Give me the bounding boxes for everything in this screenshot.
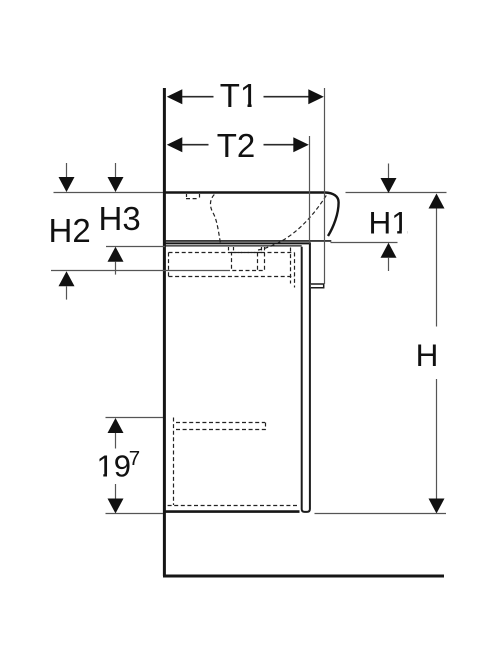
svg-text:H1: H1 [369, 205, 409, 241]
dimension T2 [167, 127, 309, 164]
dimension H1 [331, 164, 409, 272]
extension line T1 [324, 88, 326, 284]
floor line [163, 575, 444, 578]
washbasin top edge and front curve [164, 193, 339, 237]
washbasin bowl hidden contour left [210, 195, 220, 243]
dimension H [315, 194, 447, 514]
extension line T2 [309, 136, 311, 244]
drain trap hidden box [232, 253, 265, 271]
dimension H3 [99, 163, 166, 275]
svg-text:H: H [416, 337, 439, 373]
door hidden outline top [169, 248, 295, 288]
svg-text:T2: T2 [217, 127, 256, 164]
svg-text:7: 7 [129, 447, 140, 470]
cabinet top edge [164, 242, 311, 244]
dimension H2 [49, 163, 231, 300]
washbasin overflow hidden lines [186, 194, 200, 199]
svg-text:H2: H2 [49, 212, 91, 249]
svg-text:T1: T1 [220, 77, 259, 114]
cabinet front panel [302, 244, 310, 512]
door inner hidden edge [168, 418, 298, 506]
washbasin bottom edge [164, 240, 331, 242]
tick line top right [346, 192, 447, 194]
wall [163, 88, 166, 576]
dimension T1 [167, 77, 324, 114]
svg-text:H3: H3 [99, 200, 141, 237]
tick line top left [54, 192, 164, 194]
drain pipe stubs hidden [229, 247, 265, 253]
cabinet top inner edge [164, 245, 302, 247]
door handle tab [311, 284, 324, 288]
cabinet bottom edge [163, 510, 300, 513]
dimension 19_7 [97, 418, 164, 514]
shelf hidden lines [176, 423, 268, 430]
washbasin bowl hidden contour right [258, 195, 327, 250]
